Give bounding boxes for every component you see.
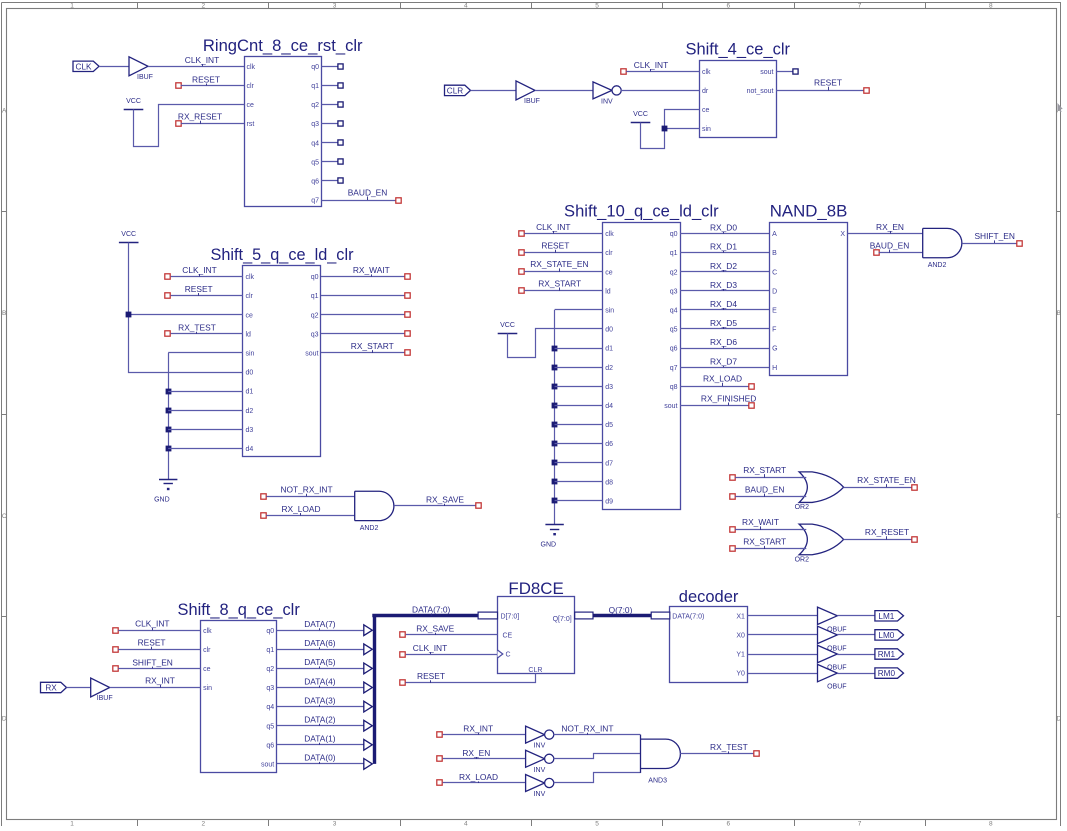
- net label CLK_INT (Shift_5): [182, 265, 216, 276]
- wire Shift_5 q2 to terminal: [321, 314, 405, 316]
- wire BAUD_EN to AND2: [879, 252, 923, 254]
- svg-text:C: C: [2, 513, 7, 520]
- terminal RX_EN (INV input): [437, 756, 442, 761]
- open terminal q6: [338, 178, 343, 183]
- svg-text:1: 1: [70, 3, 74, 10]
- wire RX to IBUF: [67, 687, 91, 689]
- bus tap DATA(4): [364, 682, 373, 693]
- svg-text:d4: d4: [605, 403, 613, 410]
- net label RX_D2: [710, 261, 737, 272]
- svg-text:E: E: [772, 308, 777, 315]
- wire DATA(7) from Shift_8 to bus tap: [277, 630, 366, 632]
- wire OBUF to port LM0: [837, 634, 875, 636]
- wire CLR to IBUF: [471, 90, 517, 92]
- svg-text:D: D: [1056, 715, 1061, 722]
- svg-text:d3: d3: [605, 384, 613, 391]
- wire RX_START to OR2b: [735, 548, 805, 550]
- svg-text:RESET: RESET: [185, 284, 213, 294]
- wire INV (RX_LOAD) to AND3: [554, 773, 641, 783]
- svg-text:Shift_8_q_ce_clr: Shift_8_q_ce_clr: [178, 600, 301, 619]
- net label DATA(7:0) bus: [412, 604, 451, 615]
- net label RX_INT (Shift_8): [145, 676, 175, 688]
- svg-text:D: D: [772, 288, 777, 295]
- svg-text:RingCnt_8_ce_rst_clr: RingCnt_8_ce_rst_clr: [203, 36, 363, 55]
- svg-text:AND3: AND3: [648, 777, 667, 784]
- svg-text:q7: q7: [311, 198, 319, 205]
- svg-text:DATA(6): DATA(6): [304, 638, 336, 648]
- wire RESET from Shift_4 not_sout: [776, 90, 864, 92]
- output port LM0: [875, 630, 904, 640]
- svg-text:CLK_INT: CLK_INT: [185, 55, 219, 65]
- svg-text:D: D: [2, 715, 7, 722]
- svg-text:5: 5: [595, 3, 599, 10]
- svg-text:7: 7: [858, 821, 862, 826]
- net label RX_D7: [710, 356, 737, 367]
- svg-text:INV: INV: [534, 791, 546, 798]
- net label RX_D0: [710, 223, 737, 234]
- svg-text:RX_STATE_EN: RX_STATE_EN: [530, 259, 588, 269]
- svg-text:NOT_RX_INT: NOT_RX_INT: [561, 724, 613, 734]
- net label RESET (Shift_5): [185, 284, 213, 296]
- block RingCnt_8_ce_rst_clr body: [245, 57, 322, 207]
- svg-text:sout: sout: [305, 351, 318, 358]
- svg-text:sout: sout: [760, 69, 773, 76]
- wire RingCnt q4 stub: [322, 142, 339, 144]
- net label SHIFT_EN: [974, 231, 1015, 243]
- svg-text:RX_D7: RX_D7: [710, 356, 737, 366]
- svg-text:RX_INT: RX_INT: [463, 724, 493, 734]
- net label DATA(5): [304, 657, 336, 668]
- wire DATA(5) from Shift_8 to bus tap: [277, 668, 366, 670]
- wire decoder X0 to OBUF: [747, 634, 817, 636]
- terminal SHIFT_EN: [1017, 241, 1022, 246]
- net label RX_D1: [710, 242, 737, 253]
- svg-text:RX_LOAD: RX_LOAD: [459, 772, 498, 782]
- wire GND rail to Shift_10 d5: [555, 424, 603, 426]
- svg-text:CLR: CLR: [528, 667, 542, 674]
- block Shift_10_q_ce_ld_clr body: [603, 223, 681, 510]
- junction at Shift_10 d4: [552, 403, 558, 409]
- input port RX: [41, 682, 67, 692]
- terminal CLK_INT (Shift_5): [165, 274, 170, 279]
- net label RX_WAIT (OR2 input): [742, 517, 779, 530]
- junction at Shift_5 d2: [166, 408, 172, 414]
- svg-text:BAUD_EN: BAUD_EN: [870, 240, 910, 250]
- or-gate OR2 (RX_STATE_EN): [795, 472, 844, 511]
- svg-text:A: A: [772, 231, 777, 238]
- junction at Shift_10 d9: [552, 498, 558, 504]
- svg-text:RX_SAVE: RX_SAVE: [416, 624, 454, 634]
- svg-text:2: 2: [202, 821, 206, 826]
- svg-text:B: B: [1057, 310, 1061, 317]
- svg-text:RX_SAVE: RX_SAVE: [426, 495, 464, 505]
- svg-text:DATA(3): DATA(3): [304, 695, 336, 705]
- bus tap DATA(7): [364, 625, 373, 636]
- svg-text:3: 3: [333, 821, 337, 826]
- svg-text:RX_FINISHED: RX_FINISHED: [701, 393, 756, 403]
- net label RX_WAIT: [353, 265, 390, 276]
- bus pin decoder DATA(7:0): [651, 612, 670, 619]
- wire DATA(6) from Shift_8 to bus tap: [277, 649, 366, 651]
- wire DATA(0) from Shift_8 to bus tap: [277, 763, 366, 765]
- wire INV (RX_EN) to AND3: [554, 754, 641, 759]
- svg-text:1: 1: [70, 821, 74, 826]
- svg-text:Y1: Y1: [736, 652, 745, 659]
- svg-text:BAUD_EN: BAUD_EN: [745, 484, 785, 494]
- output port LM1: [875, 611, 904, 621]
- wire RX_EN from NAND_8B X to AND2: [848, 233, 923, 235]
- bus tap DATA(1): [364, 739, 373, 750]
- svg-text:Q[7:0]: Q[7:0]: [553, 616, 572, 623]
- svg-text:DATA(1): DATA(1): [304, 734, 336, 744]
- net label RX_STATE_EN (output): [857, 475, 916, 487]
- wire RX_RESET to RingCnt rst: [181, 123, 244, 125]
- block FD8CE body: [498, 597, 575, 674]
- net label RX_START (OR2 input): [743, 465, 786, 478]
- wire RX_START to OR2: [735, 477, 805, 479]
- terminal RX_TEST: [165, 331, 170, 336]
- net label RX_STATE_EN (Shift_10): [530, 259, 588, 272]
- wire RX_WAIT to OR2: [735, 529, 805, 531]
- svg-text:B: B: [772, 250, 777, 257]
- and-gate AND2 (RX_SAVE): [355, 491, 394, 532]
- wire RX_EN to INV: [443, 758, 526, 760]
- terminal BAUD_EN: [396, 198, 401, 203]
- bus pin D[7:0]: [478, 612, 497, 619]
- net label DATA(2): [304, 715, 336, 726]
- wire VCC to Shift_10 d0: [508, 329, 603, 358]
- svg-text:d1: d1: [605, 346, 613, 353]
- svg-text:6: 6: [727, 821, 731, 826]
- net label RX_START (Shift_10): [538, 278, 581, 291]
- svg-text:sout: sout: [664, 403, 677, 410]
- svg-text:clk: clk: [247, 64, 256, 71]
- svg-text:AND2: AND2: [360, 525, 379, 532]
- terminal Shift_5 q3: [405, 331, 410, 336]
- terminal RX_WAIT (OR2 input): [730, 527, 735, 532]
- wire decoder X1 to OBUF: [747, 615, 817, 617]
- net label RESET (Shift_10): [541, 241, 569, 253]
- svg-text:clr: clr: [246, 293, 254, 300]
- wire GND rail to Shift_5 d2: [168, 410, 243, 412]
- svg-text:q6: q6: [311, 179, 319, 186]
- power VCC (RingCnt ce): [124, 98, 144, 109]
- svg-text:RX_EN: RX_EN: [462, 748, 490, 758]
- svg-text:DATA(7): DATA(7): [304, 619, 336, 629]
- svg-text:RESET: RESET: [541, 241, 569, 251]
- svg-text:FD8CE: FD8CE: [508, 579, 563, 598]
- terminal RX_WAIT: [405, 274, 410, 279]
- svg-text:Shift_5_q_ce_ld_clr: Shift_5_q_ce_ld_clr: [211, 245, 354, 264]
- svg-text:CLK_INT: CLK_INT: [413, 643, 447, 653]
- inverter INV (CLR): [593, 82, 621, 106]
- svg-text:NAND_8B: NAND_8B: [770, 202, 848, 221]
- svg-text:clk: clk: [702, 69, 711, 76]
- svg-text:DATA(4): DATA(4): [304, 676, 336, 686]
- wire RESET to Shift_10: [524, 252, 603, 254]
- wire BAUD_EN from RingCnt q7: [322, 200, 396, 202]
- wire decoder Y0 to OBUF: [747, 673, 817, 675]
- svg-text:RX_START: RX_START: [743, 537, 786, 547]
- wire GND rail to Shift_10 d7: [555, 462, 603, 464]
- block Shift_5_q_ce_ld_clr body: [243, 266, 321, 457]
- svg-text:BAUD_EN: BAUD_EN: [348, 187, 388, 197]
- svg-text:Shift_10_q_ce_ld_clr: Shift_10_q_ce_ld_clr: [564, 202, 719, 221]
- bus tap DATA(2): [364, 720, 373, 731]
- svg-text:d5: d5: [605, 422, 613, 429]
- bus pin Q[7:0]: [575, 612, 593, 619]
- svg-text:ce: ce: [247, 102, 255, 109]
- net label DATA(7): [304, 619, 336, 630]
- svg-text:8: 8: [989, 821, 993, 826]
- terminal RESET: [176, 83, 181, 88]
- svg-text:d1: d1: [246, 389, 254, 396]
- wire RX_START to Shift_10: [524, 290, 603, 292]
- net label RX_LOAD (Shift_10 q8): [703, 374, 742, 387]
- svg-text:RM0: RM0: [878, 669, 896, 678]
- svg-text:H: H: [772, 365, 777, 372]
- wire CLK to IBUF: [99, 66, 129, 68]
- net label BAUD_EN: [348, 187, 388, 200]
- wire CLK_INT to Shift_4 clk: [626, 71, 699, 73]
- svg-text:G: G: [772, 346, 777, 353]
- or-gate OR2 (RX_RESET): [795, 524, 844, 563]
- svg-text:C: C: [1056, 513, 1061, 520]
- net label RX_INT (INV input): [463, 724, 493, 735]
- wire GND rail to Shift_10 d9: [555, 500, 603, 502]
- wire RESET to FD8CE CLR: [406, 674, 536, 683]
- wire DATA(3) from Shift_8 to bus tap: [277, 706, 366, 708]
- wire GND rail to Shift_10 d1: [555, 348, 603, 350]
- wire RX_STATE_EN to Shift_10: [524, 271, 603, 273]
- open terminal q2: [338, 102, 343, 107]
- svg-text:q2: q2: [311, 102, 319, 109]
- wire RX_FINISHED from Shift_10 sout: [680, 405, 749, 407]
- net label RX_TEST: [710, 742, 748, 754]
- svg-text:d9: d9: [605, 499, 613, 506]
- svg-text:q6: q6: [670, 346, 678, 353]
- bus tap DATA(5): [364, 663, 373, 674]
- wire RX_SAVE from AND2: [394, 505, 476, 507]
- svg-text:IBUF: IBUF: [524, 98, 540, 105]
- terminal CLK_INT (Shift_4): [621, 69, 626, 74]
- buffer OBUF (RM1): [818, 645, 847, 671]
- wire NOT_RX_INT to AND2: [266, 496, 354, 498]
- and-gate AND2 (SHIFT_EN): [923, 228, 962, 269]
- wire OBUF to port LM1: [837, 615, 875, 617]
- wire Shift_5 q3 to terminal: [321, 333, 405, 335]
- wire RX_LOAD from Shift_10 q8: [680, 386, 749, 388]
- svg-text:RX_RESET: RX_RESET: [178, 112, 222, 122]
- svg-text:LM1: LM1: [878, 612, 894, 621]
- svg-text:INV: INV: [534, 767, 546, 774]
- svg-text:q1: q1: [670, 250, 678, 257]
- wire OBUF to port RM1: [837, 654, 875, 656]
- net label DATA(1): [304, 734, 336, 745]
- junction at Shift_5 ce: [126, 312, 132, 318]
- terminal Shift_5 q2: [405, 312, 410, 317]
- svg-text:OR2: OR2: [795, 504, 810, 511]
- wire RX_D0 from Shift_10 q0 to NAND_8B: [680, 233, 770, 235]
- svg-text:q3: q3: [311, 331, 319, 338]
- wire RX_D4 from Shift_10 q4 to NAND_8B: [680, 309, 770, 311]
- svg-text:RX_STATE_EN: RX_STATE_EN: [857, 475, 916, 485]
- svg-text:RESET: RESET: [814, 78, 842, 88]
- net label RX_RESET: [178, 112, 222, 124]
- inverter INV (RX_EN): [526, 750, 554, 774]
- terminal RESET (Shift_10): [519, 250, 524, 255]
- svg-text:ce: ce: [246, 312, 254, 319]
- terminal NOT_RX_INT (AND2 input): [261, 494, 266, 499]
- terminal RESET (Shift_5): [165, 293, 170, 298]
- svg-text:DATA(7:0): DATA(7:0): [412, 604, 451, 614]
- svg-text:DATA(2): DATA(2): [304, 715, 336, 725]
- terminal RX_FINISHED: [749, 403, 754, 408]
- svg-text:RX_START: RX_START: [743, 465, 786, 475]
- terminal BAUD_EN (OR2 input): [730, 494, 735, 499]
- wire BAUD_EN to OR2: [735, 496, 805, 498]
- net label RX_D6: [710, 337, 737, 348]
- svg-text:q0: q0: [311, 64, 319, 71]
- wire GND rail to Shift_10 sin: [555, 310, 603, 525]
- buffer OBUF (LM1): [818, 607, 847, 633]
- svg-text:IBUF: IBUF: [137, 74, 153, 81]
- inverter INV (RX_LOAD): [526, 775, 554, 799]
- wire CLK_INT to FD8CE C: [406, 654, 498, 656]
- block decoder body: [670, 607, 748, 683]
- terminal RX_START (Shift_5): [405, 350, 410, 355]
- wire CLK_INT to Shift_10: [524, 233, 603, 235]
- net label BAUD_EN (AND2 input): [870, 240, 910, 252]
- svg-text:RESET: RESET: [192, 74, 220, 84]
- svg-text:OBUF: OBUF: [827, 684, 846, 691]
- bus DATA(7:0) horizontal to FD8CE: [372, 614, 478, 617]
- svg-text:ce: ce: [605, 269, 613, 276]
- input port CLK: [73, 61, 99, 71]
- wire RX_TEST to Shift_5 ld: [171, 333, 243, 335]
- junction at Shift_10 d8: [552, 479, 558, 485]
- wire RX_INT from IBUF to Shift_8 sin: [110, 687, 201, 689]
- svg-text:CLK_INT: CLK_INT: [135, 619, 169, 629]
- svg-text:RX_D3: RX_D3: [710, 280, 737, 290]
- svg-text:RX_START: RX_START: [538, 278, 581, 288]
- wire GND rail to Shift_5 sin: [168, 353, 243, 480]
- svg-text:X: X: [840, 231, 845, 238]
- net label RX_D5: [710, 318, 737, 329]
- net label CLK_INT (Shift_10): [536, 222, 570, 234]
- svg-text:CE: CE: [503, 633, 513, 640]
- svg-text:GND: GND: [154, 497, 170, 504]
- wire INV to Shift_4 dr: [621, 90, 700, 92]
- svg-text:C: C: [506, 652, 511, 659]
- junction at Shift_5 d3: [166, 427, 172, 433]
- svg-text:q4: q4: [311, 140, 319, 147]
- open terminal q5: [338, 159, 343, 164]
- svg-text:dr: dr: [702, 88, 709, 95]
- svg-text:Q(7:0): Q(7:0): [609, 605, 633, 615]
- net label NOT_RX_INT: [561, 724, 613, 735]
- svg-text:RX_LOAD: RX_LOAD: [703, 374, 742, 384]
- svg-text:SHIFT_EN: SHIFT_EN: [974, 231, 1015, 241]
- svg-text:4: 4: [464, 3, 468, 10]
- wire RX_LOAD to INV: [443, 782, 526, 784]
- svg-text:RX_WAIT: RX_WAIT: [353, 265, 390, 275]
- svg-text:q3: q3: [311, 121, 319, 128]
- svg-text:DATA(0): DATA(0): [304, 753, 336, 763]
- svg-text:RX_WAIT: RX_WAIT: [742, 517, 779, 527]
- svg-text:D[7:0]: D[7:0]: [501, 613, 520, 620]
- svg-text:d8: d8: [605, 479, 613, 486]
- svg-text:RX_LOAD: RX_LOAD: [281, 504, 320, 514]
- svg-text:q0: q0: [670, 231, 678, 238]
- svg-text:B: B: [2, 310, 6, 317]
- output port RM1: [875, 649, 904, 659]
- junction at Shift_10 d3: [552, 384, 558, 390]
- wire RX_D7 from Shift_10 q7 to NAND_8B: [680, 367, 770, 369]
- junction at Shift_10 d6: [552, 441, 558, 447]
- open terminal q3: [338, 121, 343, 126]
- svg-text:RX_D6: RX_D6: [710, 337, 737, 347]
- junction at Shift_5 d1: [166, 389, 172, 395]
- junction at Shift_10 d1: [552, 346, 558, 352]
- svg-text:RX: RX: [45, 684, 57, 693]
- svg-text:VCC: VCC: [633, 111, 648, 118]
- svg-text:clr: clr: [605, 250, 613, 257]
- net label BAUD_EN (OR2 input): [745, 484, 785, 496]
- wire Shift_5 q1 to terminal: [321, 295, 405, 297]
- svg-text:rst: rst: [247, 121, 255, 128]
- svg-text:clk: clk: [605, 231, 614, 238]
- net label RESET (Shift_8): [138, 638, 166, 650]
- buffer IBUF (CLR): [516, 81, 540, 105]
- svg-text:clk: clk: [203, 628, 212, 635]
- svg-text:RX_RESET: RX_RESET: [865, 527, 909, 537]
- block Shift_4_ce_clr body: [700, 61, 777, 138]
- wire DATA(1) from Shift_8 to bus tap: [277, 744, 366, 746]
- power VCC (Shift_5): [119, 231, 139, 242]
- wire RX_RESET from OR2: [844, 539, 912, 541]
- wire RX_D6 from Shift_10 q6 to NAND_8B: [680, 348, 770, 350]
- buffer OBUF (RM0): [818, 664, 847, 690]
- svg-text:ce: ce: [203, 666, 211, 673]
- wire decoder Y1 to OBUF: [747, 654, 817, 656]
- terminal CLK_INT (FD8CE C): [400, 652, 405, 657]
- wire CLK_INT from IBUF to RingCnt clk: [148, 66, 244, 68]
- svg-text:d6: d6: [605, 441, 613, 448]
- terminal CLK_INT (Shift_10): [519, 231, 524, 236]
- svg-text:7: 7: [858, 3, 862, 10]
- svg-text:q1: q1: [266, 647, 274, 654]
- bus tap DATA(3): [364, 701, 373, 712]
- svg-text:ld: ld: [605, 288, 611, 295]
- terminal RX_START (OR2b input): [730, 546, 735, 551]
- svg-text:d2: d2: [605, 365, 613, 372]
- terminal CLK_INT (Shift_8): [113, 628, 118, 633]
- terminal RX_SAVE (FD8CE CE): [400, 632, 405, 637]
- bus tap DATA(0): [364, 759, 373, 770]
- wire VCC to Shift_5 ce and d0: [129, 243, 244, 373]
- wire CLK_INT to Shift_5 clk: [171, 276, 243, 278]
- buffer IBUF (RX): [91, 678, 113, 702]
- svg-text:CLK_INT: CLK_INT: [182, 265, 216, 275]
- terminal RX_LOAD (AND2 input): [261, 513, 266, 518]
- svg-text:4: 4: [464, 821, 468, 826]
- svg-text:F: F: [772, 327, 776, 334]
- svg-text:q4: q4: [266, 704, 274, 711]
- svg-text:q4: q4: [670, 308, 678, 315]
- wire SHIFT_EN from AND2: [962, 243, 1017, 245]
- svg-text:SHIFT_EN: SHIFT_EN: [132, 657, 173, 667]
